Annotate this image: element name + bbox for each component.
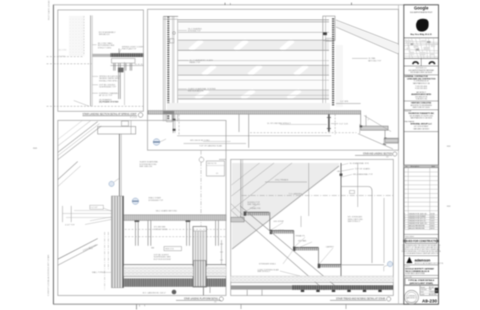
svg-text:INSTALL PER SPEC: INSTALL PER SPEC: [99, 79, 118, 82]
svg-text:TECH CORNERS BLDG B: TECH CORNERS BLDG B: [405, 271, 430, 273]
svg-text:NEW YORK NY 10013: NEW YORK NY 10013: [413, 107, 430, 109]
svg-text:F 415 555 0101: F 415 555 0101: [415, 88, 427, 90]
svg-text:TOP OF LANDING SLAB: TOP OF LANDING SLAB: [199, 144, 222, 147]
viewport 2 box: [148, 9, 399, 150]
svg-text:3" = 1'-0": 3" = 1'-0": [130, 117, 138, 119]
callout bubble a: [109, 181, 114, 186]
stringer diagonal upper: [240, 206, 340, 290]
tread 4: [319, 265, 342, 268]
riser 1: [269, 212, 271, 230]
tread 2: [271, 231, 294, 234]
slab top line: [124, 264, 226, 266]
key arc right: [429, 62, 435, 64]
viewport 3 box: [58, 120, 226, 295]
right dim long: [383, 198, 385, 263]
svg-text:SIM NOTE: SIM NOTE: [207, 163, 217, 165]
svg-text:GB-1 GUARD BEYOND: GB-1 GUARD BEYOND: [156, 210, 178, 213]
diagonal leader: [74, 101, 89, 107]
svg-text:STRUCT DWG: STRUCT DWG: [154, 229, 168, 231]
left mullion inner lines: [172, 16, 174, 121]
top margin ticks: [224, 3, 226, 5]
step leader lines: [246, 204, 334, 276]
dashdot centerline: [200, 162, 202, 226]
separator: [404, 65, 439, 67]
seal circle: [405, 290, 419, 304]
dark deck band: [124, 278, 226, 286]
svg-text:THORNTON TOMASETTI INC: THORNTON TOMASETTI INC: [408, 112, 435, 115]
tread 1: [244, 212, 269, 215]
svg-text:4 EQ TREADS: 4 EQ TREADS: [275, 179, 289, 182]
sheet bottom border: [53, 303, 438, 305]
slab band dark part: [110, 53, 143, 57]
post caps: [135, 220, 140, 222]
separator: [404, 285, 439, 287]
sloped soffit stipple: [232, 163, 339, 250]
pocket box: [112, 58, 136, 63]
separator: [404, 255, 439, 257]
riser to floor: [340, 268, 342, 277]
separator: [404, 100, 439, 102]
under-slab line: [177, 135, 331, 137]
svg-text:description: description: [411, 165, 420, 168]
left stair diagonals: [58, 239, 98, 260]
svg-text:Google: Google: [414, 5, 429, 10]
bottom fold tick 1: [136, 304, 138, 309]
floor deck band dark part: [292, 285, 393, 290]
registration dashes: [33, 148, 37, 149]
svg-text:HSS COL: HSS COL: [165, 249, 175, 251]
consultant text block: [407, 77, 436, 100]
svg-text:HR-1 HANDRAIL TYP: HR-1 HANDRAIL TYP: [353, 173, 373, 176]
key arc left: [413, 62, 419, 64]
svg-text:STRINGER TYP: STRINGER TYP: [148, 200, 163, 202]
step face 2: [384, 130, 386, 138]
hanger rods: [114, 63, 132, 99]
svg-text:AT 16 OC TYP: AT 16 OC TYP: [99, 94, 113, 97]
mullion base stem: [172, 114, 174, 133]
tiny box on band: [122, 121, 129, 126]
right labels: [348, 162, 374, 223]
left landing hatch stub: [231, 217, 245, 222]
separator: [404, 233, 439, 235]
svg-text:issue status: issue status: [405, 235, 414, 238]
glazing button: [173, 32, 176, 35]
svg-text:TREAD PL: TREAD PL: [295, 235, 306, 238]
svg-text:GL GUARDRAIL SYS: GL GUARDRAIL SYS: [349, 162, 369, 165]
vert dim b: [357, 163, 359, 207]
hanger post b long: [248, 114, 250, 148]
stringer diagonal lower: [240, 216, 324, 290]
posts below landing: [136, 220, 219, 245]
svg-text:CL RISER: CL RISER: [275, 230, 285, 232]
svg-text:1'-2 1/2": 1'-2 1/2": [90, 207, 98, 209]
teal bubble right: [387, 261, 392, 266]
small dark rev box: [435, 288, 438, 293]
small end box bottom right: [384, 139, 398, 143]
short vertical: [130, 120, 132, 134]
svg-text:1'-0" MIN: 1'-0" MIN: [340, 101, 349, 103]
slab band light part: [92, 54, 110, 57]
big vertical guard: [340, 163, 342, 282]
leaders: [92, 75, 98, 77]
svg-text:ISSUED FOR CONSTRUCTION: ISSUED FOR CONSTRUCTION: [403, 240, 439, 243]
wall face line: [90, 15, 92, 106]
soffit diagonal parallels: [232, 163, 293, 210]
separator: [404, 274, 439, 276]
svg-text:CARPET: CARPET: [326, 245, 335, 248]
boxed label: [164, 247, 182, 251]
plan diagonals upper: [58, 122, 98, 153]
right mullion thin lines: [322, 41, 324, 111]
glass horizontal lines: [178, 20, 329, 99]
left mullion outer lines: [162, 16, 164, 121]
floor finish wash: [167, 103, 330, 110]
svg-text:PLOT DATE 12/04/20: PLOT DATE 12/04/20: [48, 0, 51, 20]
separator: [404, 264, 439, 266]
separator: [404, 131, 439, 133]
floor stipple band: [231, 276, 394, 282]
svg-text:(ARCH/CLIENT STAIR): (ARCH/CLIENT STAIR): [410, 282, 434, 285]
dim text left: [90, 205, 104, 209]
sheet inner right border: [398, 5, 400, 304]
caption 4: [330, 297, 391, 301]
vert dim a: [308, 163, 310, 216]
mullion bracket box: [170, 39, 174, 43]
landing step band 3: [385, 138, 399, 142]
heavy hanger w ticks: [328, 114, 330, 132]
svg-text:RCP FOR EXTENT: RCP FOR EXTENT: [154, 259, 172, 261]
svg-text:OAKLAND CA 94612: OAKLAND CA 94612: [413, 127, 429, 130]
schedule box: [206, 161, 224, 176]
leaders: [103, 208, 119, 214]
svg-text:SEE ELEVATION: SEE ELEVATION: [188, 90, 204, 93]
section bubble: [153, 139, 160, 146]
landing line right of guard: [341, 264, 384, 266]
revision table grid: [404, 168, 439, 230]
svg-text:MOUNTAIN VIEW CA 94043: MOUNTAIN VIEW CA 94043: [410, 71, 432, 74]
step labels: [247, 171, 342, 273]
svg-text:TOP OF GUARD: TOP OF GUARD: [355, 167, 371, 170]
svg-text:B.O. LANDING EL 100'-0": B.O. LANDING EL 100'-0": [143, 291, 166, 294]
left exit diagonals: [231, 204, 243, 216]
roof diagonal 1: [336, 20, 399, 44]
revision table header: [404, 165, 439, 168]
riser 3: [318, 247, 320, 264]
bottom fold tick 3: [345, 304, 347, 309]
handrail profile: [341, 187, 372, 264]
separator: [404, 109, 439, 111]
horiz dim: [265, 181, 307, 183]
sheet title box: [405, 278, 438, 285]
posts below floor: [246, 290, 248, 296]
svg-text:7": 7": [368, 119, 370, 121]
roof diagonal 2: [336, 27, 399, 54]
mullion top cap: [163, 15, 178, 17]
consultant header: [404, 74, 439, 76]
svg-text:BEYOND TYP: BEYOND TYP: [368, 60, 382, 62]
svg-text:1/2: 1/2: [214, 302, 217, 304]
dimension top right: [336, 103, 361, 105]
right edge inner vertical: [221, 240, 223, 264]
dashed ceiling line left: [47, 56, 85, 58]
svg-text:INTEGRAL GROUP LLC: INTEGRAL GROUP LLC: [411, 122, 433, 125]
separator: [404, 37, 439, 39]
revision filled rows: [404, 213, 434, 229]
bracket on guard: [350, 191, 355, 194]
svg-text:SUSPENDED TYP: SUSPENDED TYP: [99, 87, 117, 89]
small dark detail: [172, 290, 177, 295]
svg-text:SEE 7/A9-231: SEE 7/A9-231: [247, 203, 261, 206]
disclaimer paragraph: [402, 244, 441, 255]
svg-text:STRINGER SSM-1: STRINGER SSM-1: [259, 264, 277, 266]
glass gray panel C: [178, 90, 329, 99]
bottom fold tick 2: [240, 304, 242, 309]
glass gray panel A: [178, 40, 329, 50]
concrete wall stipple: [69, 16, 84, 56]
bottom dashed line: [47, 105, 144, 107]
plan band: [98, 127, 136, 135]
dashdot datum: [242, 195, 394, 197]
svg-text:PER PLAN TYP: PER PLAN TYP: [122, 48, 137, 51]
svg-text:(N) FRAME SYSTEM: (N) FRAME SYSTEM: [99, 101, 119, 104]
landing step band 2: [361, 126, 388, 130]
column box: [193, 227, 207, 288]
two key cells divider: [420, 58, 422, 66]
svg-text:(E) CONC: (E) CONC: [59, 50, 68, 52]
svg-text:Bay View Bldg 20 & 21: Bay View Bldg 20 & 21: [411, 34, 433, 36]
hanger stub: [118, 49, 120, 54]
caption 2: [355, 152, 397, 159]
svg-text:TREAD FIN: TREAD FIN: [250, 207, 261, 210]
long vertical right of assembly: [124, 62, 126, 105]
base bolts: [173, 119, 176, 121]
hanger post a: [238, 114, 240, 132]
left mullion dark bar: [167, 16, 169, 120]
viewport 4 box: [231, 159, 394, 295]
floor line: [231, 282, 394, 284]
separator: [404, 57, 439, 59]
leader: [92, 44, 96, 46]
tread 3: [294, 247, 319, 250]
svg-text:TYPICAL STAIR DETAILS: TYPICAL STAIR DETAILS: [408, 279, 435, 282]
concrete stipple band: [124, 266, 226, 276]
svg-text:T.O. LANDING: T.O. LANDING: [289, 192, 303, 195]
short vert dim: [300, 216, 302, 227]
right mullion dark bar: [332, 18, 334, 105]
viewport 1 box: [58, 10, 144, 111]
wall striped band: [111, 196, 123, 288]
sheet top border: [53, 4, 438, 6]
svg-text:C:\REVIT LOCAL\A-GOOGLE-MFT-ST: C:\REVIT LOCAL\A-GOOGLE-MFT-STAIR: [47, 254, 50, 296]
floor band: [148, 111, 361, 115]
svg-text:4 1/2" TYP: 4 1/2" TYP: [65, 224, 75, 226]
landing band: [119, 215, 226, 221]
lower plan diagonals: [58, 162, 78, 180]
stub line at right edge: [219, 158, 226, 160]
stub below column: [202, 287, 204, 295]
riser 2: [293, 231, 295, 248]
stair nose diagonal: [364, 116, 391, 132]
landing guard double vertical: [240, 160, 242, 221]
sheet left trim edge: [52, 5, 54, 304]
svg-text:SEE 2/A9-230: SEE 2/A9-230: [139, 165, 153, 168]
mullion base assembly: [163, 111, 174, 114]
svg-text:STRUCT DWG: STRUCT DWG: [98, 47, 112, 49]
centerline dashed: [178, 114, 180, 135]
right post lower box: [326, 38, 334, 41]
lower ref line: [184, 143, 246, 145]
svg-text:A9-230: A9-230: [422, 298, 438, 303]
caption 1: [83, 113, 143, 119]
dim verticals: [62, 206, 64, 222]
dashed vertical right: [334, 114, 336, 134]
stipple boundary dashed: [83, 16, 85, 56]
glass wash: [178, 22, 329, 99]
floor deck band light part: [231, 285, 292, 289]
right post box: [323, 16, 335, 40]
svg-text:adamson: adamson: [415, 258, 431, 262]
line under concrete: [124, 275, 226, 277]
svg-text:PANEL TYP: PANEL TYP: [189, 61, 200, 64]
callout bubble b: [132, 198, 138, 204]
svg-text:date: date: [432, 165, 436, 168]
dashdot left of wall: [104, 232, 106, 290]
dashed line 2: [47, 63, 92, 65]
map thumbnail: [405, 39, 439, 59]
svg-text:3'-0" CLR: 3'-0" CLR: [339, 123, 348, 125]
embed plates: [301, 290, 382, 292]
svg-text:LICENSED: LICENSED: [408, 295, 417, 297]
vertical dim small: [365, 115, 367, 126]
svg-text:SAN FRANCISCO CA: SAN FRANCISCO CA: [413, 82, 431, 85]
column over band: [194, 261, 207, 287]
black stamp blob: [416, 19, 429, 32]
soffit diagonal main: [232, 166, 339, 249]
adamson logo mark: [406, 257, 412, 263]
svg-text:TORONTO ON: TORONTO ON: [416, 99, 428, 101]
dashed lines below landing: [121, 228, 226, 230]
caption 3: [176, 297, 223, 304]
svg-text:SEE STRUCT: SEE STRUCT: [348, 221, 361, 223]
joint assembly dark cluster: [118, 68, 124, 73]
wall double line: [118, 134, 120, 196]
svg-text:SEE A8-101: SEE A8-101: [99, 33, 111, 36]
svg-text:BM: BM: [151, 247, 154, 249]
issued for construction box: [405, 238, 437, 243]
svg-text:1600 AMPHITHEATRE PKWY: 1600 AMPHITHEATRE PKWY: [410, 11, 434, 14]
dashed mid: [250, 132, 357, 134]
svg-text:CONC TOPPING SLAB: CONC TOPPING SLAB: [258, 268, 280, 271]
wash between diagonals: [336, 21, 399, 53]
small circle callout: [199, 157, 204, 162]
svg-text:SAN FRANCISCO CA 94105: SAN FRANCISCO CA 94105: [410, 117, 432, 120]
landing step down face: [360, 114, 362, 126]
info table divider: [419, 286, 421, 296]
right post dark block: [323, 32, 327, 35]
ceiling line under band: [110, 65, 143, 67]
glass gray panel B: [178, 65, 329, 75]
svg-text:1/2: 1/2: [386, 157, 389, 159]
title block frame: [404, 5, 439, 304]
